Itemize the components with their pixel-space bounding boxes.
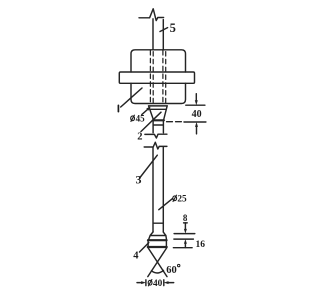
svg-text:60: 60 [166,265,177,276]
arrowhead 40 bottom [195,122,198,127]
svg-text:4: 4 [133,250,139,261]
angle arc 60 [152,270,164,273]
cone point crossed lines [148,248,167,277]
wire upper rod section [153,19,163,50]
svg-text:25: 25 [177,194,187,204]
dimension 40 right [167,94,206,134]
block body upper [131,50,186,72]
leader label 4 [140,243,149,252]
arrowhead phi45 leader [146,107,151,111]
cone washer phi45 [149,106,168,120]
tip flare [149,232,167,240]
arrowhead phi40 right [164,281,169,284]
arrowhead 16 up [184,239,187,244]
svg-text:45: 45 [136,114,146,124]
break symbol top [139,9,164,21]
leader label 5 [160,28,168,32]
label 1 [117,105,119,111]
svg-text:2: 2 [137,131,142,142]
value phi45 symbol [131,115,135,122]
flange [119,72,194,83]
collar [153,121,163,133]
svg-text:8: 8 [183,213,188,223]
svg-text:40: 40 [192,109,202,120]
value phi25 symbol [173,195,177,202]
dimension phi40 [137,280,174,286]
hidden hole dashed lines [150,51,165,103]
wire lower rod section [153,147,163,232]
value phi40 symbol [148,279,152,286]
block body lower [131,83,186,103]
degree mark [178,264,180,266]
break symbol below collar [145,134,167,138]
tip disc [148,241,166,246]
svg-text:40: 40 [153,279,163,289]
leader label 2 [141,112,161,131]
leader phi45 [142,109,149,115]
leader phi25 [159,199,173,210]
arrowhead phi40 left [141,281,146,284]
leader label 1 [121,88,142,107]
break symbol top of lower rod [144,142,167,149]
svg-text:16: 16 [196,240,206,250]
arrowhead 40 top [195,100,198,105]
svg-text:5: 5 [170,21,176,35]
dimension 8 and 16 right [173,223,194,248]
arrowhead 8 down [184,229,187,234]
svg-text:3: 3 [136,173,142,187]
leader label 3 [140,155,157,177]
